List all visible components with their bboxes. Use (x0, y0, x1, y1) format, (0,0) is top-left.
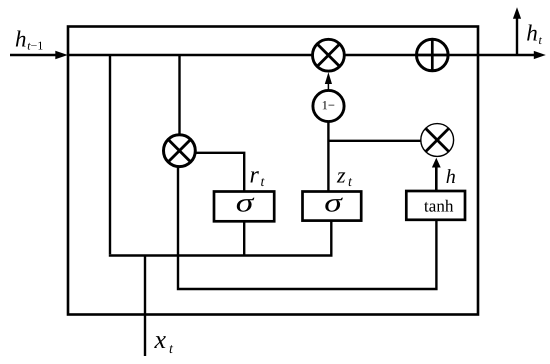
sigma box U2 (update gate σ) (303, 192, 362, 221)
label r_t (251, 171, 265, 186)
outer GRU cell box (68, 27, 478, 315)
1-minus node circle (313, 90, 344, 121)
wire: h(t-1) input line with arrowhead at cell edge (10, 51, 68, 59)
label z_t (337, 172, 352, 186)
wire: x_t input vertical (144, 256, 146, 357)
wire: vertical from h path down to bus1 (x=110) (109, 56, 111, 254)
sigma box U1 (reset gate σ) (214, 192, 274, 222)
wire: top h path through the cell (67, 54, 535, 57)
multiplier (update gate, on h path) ⊗ (313, 39, 345, 71)
tanh box U3 (candidate activation) (406, 191, 465, 220)
wire: sigma_r output down to bus1 (243, 221, 245, 256)
wire: 1-minus circle down to sigma_z, with branch right to multiplier (327, 122, 329, 193)
adder ⊕ on h path (417, 39, 449, 71)
label h_t (527, 25, 542, 45)
wire: h_t up branch (513, 7, 521, 56)
multiplier (candidate) ⊗ (421, 124, 454, 157)
wire: arrow from tanh up into candidate multiplier (432, 158, 441, 192)
multiplier (reset gate) ⊗ (164, 135, 196, 167)
label x_t (154, 336, 173, 353)
wire: bus1 (h,x concatenation bus) with up-stub to sigma_z (109, 221, 331, 256)
label h_(t-1) (16, 31, 43, 50)
wire: z_t branch right into candidate multiplier (328, 140, 421, 142)
wire: vertical from h path into reset multiplier (178, 56, 180, 136)
arrowhead: h path output right (534, 51, 546, 59)
wire: reset multiplier output down, bus2, up into tanh (178, 166, 436, 289)
wire: arrow from 1-minus circle up into top multiplier (325, 72, 332, 91)
wire: reset multiplier output right into sigma_r (196, 153, 244, 192)
label h (candidate) (447, 169, 456, 183)
